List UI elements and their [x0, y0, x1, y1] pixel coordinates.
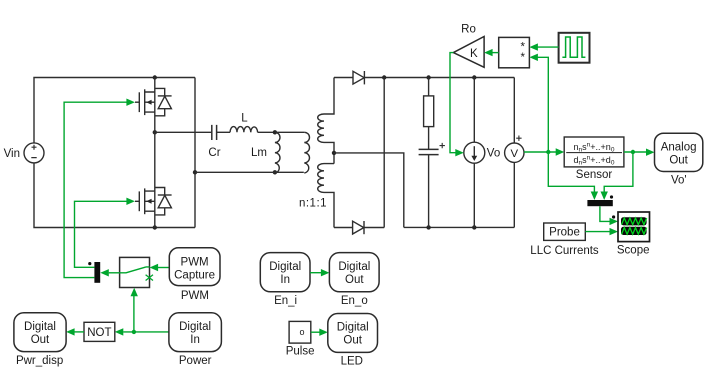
node cap bottom	[426, 225, 430, 229]
wire Sensor to Analog Out	[624, 151, 647, 153]
wire D2 cathode up to top rail	[364, 78, 384, 228]
svg-text:Digital: Digital	[24, 321, 56, 333]
svg-text:Out: Out	[345, 274, 364, 286]
wire secondary bottom to D2	[334, 227, 353, 229]
svg-text:Ro: Ro	[461, 24, 476, 36]
node resistor top	[426, 75, 430, 79]
wire V tee to mux	[548, 152, 594, 192]
svg-text:Out: Out	[343, 335, 362, 347]
wire right return leg	[194, 78, 196, 228]
svg-text:Pulse: Pulse	[286, 345, 315, 357]
svg-text:Scope: Scope	[617, 244, 650, 256]
block Probe	[544, 223, 586, 240]
svg-text:Out: Out	[669, 155, 688, 167]
svg-text:En_i: En_i	[274, 295, 297, 307]
voltmeter V	[513, 78, 515, 228]
svg-text:Vo: Vo	[487, 148, 500, 160]
svg-text:*: *	[521, 52, 526, 64]
svg-text:PWM: PWM	[181, 256, 209, 268]
demux index dot	[88, 262, 91, 265]
capacitor Cr	[212, 125, 217, 140]
svg-text:In: In	[280, 274, 290, 286]
svg-text:Out: Out	[31, 334, 50, 346]
svg-text:Capture: Capture	[174, 269, 215, 281]
wire pulse generator to product	[538, 46, 559, 48]
svg-text:Sensor: Sensor	[576, 169, 613, 181]
wire product to K	[492, 52, 499, 54]
node center tap	[332, 151, 336, 155]
wire V to Sensor	[524, 151, 556, 153]
svg-text:V: V	[510, 148, 518, 160]
wire mux to Scope	[600, 206, 610, 221]
svg-text:LLC Currents: LLC Currents	[530, 245, 599, 257]
block Digital In En_i	[260, 253, 310, 292]
block Digital Out Pwr_disp	[14, 313, 66, 352]
svg-text:PWM: PWM	[181, 290, 209, 302]
transfer function Sensor	[564, 137, 624, 167]
svg-text:Lm: Lm	[251, 147, 267, 159]
wire En_i to En_o	[310, 272, 321, 274]
wire demux to Q2 gate	[75, 201, 127, 267]
wire Probe to Scope	[585, 231, 610, 233]
block Scope	[618, 212, 650, 242]
node half-bridge midpoint	[153, 130, 157, 134]
mux index dot	[610, 195, 613, 198]
svg-text:Pwr_disp: Pwr_disp	[16, 355, 63, 367]
resistor load	[428, 78, 430, 96]
svg-text:Analog: Analog	[661, 142, 697, 154]
block Digital Out LED	[328, 314, 378, 353]
scope input index dot	[612, 215, 615, 218]
transformer primary winding	[304, 132, 309, 173]
wire secondary top to D1	[334, 77, 353, 79]
svg-text:Probe: Probe	[549, 227, 580, 239]
wire bottom rail left	[34, 163, 195, 228]
svg-text:En_o: En_o	[341, 295, 368, 307]
svg-text:Digital: Digital	[337, 322, 369, 334]
svg-text:Vo': Vo'	[671, 175, 687, 187]
wire center tap return	[334, 153, 404, 228]
wire V measurement to product	[538, 57, 549, 152]
wire K to current source Vo	[450, 53, 456, 153]
product block	[499, 37, 530, 67]
diode D1	[353, 71, 364, 84]
block Digital Out En_o	[329, 253, 379, 292]
svg-text:Digital: Digital	[269, 261, 301, 273]
wire top rail left	[34, 78, 195, 143]
wire PWM Capture to switch	[158, 267, 169, 269]
svg-text:Power: Power	[179, 355, 212, 367]
wire Sensor tee to mux	[604, 152, 633, 192]
node V measurement tee	[546, 150, 550, 154]
wire half-bridge column	[154, 78, 156, 228]
svg-text:o: o	[299, 327, 304, 337]
block Digital In Power	[169, 313, 222, 352]
node tank return	[193, 170, 197, 174]
diode D2	[353, 221, 364, 234]
mux bar	[587, 200, 612, 206]
svg-text:n:1:1: n:1:1	[299, 198, 327, 210]
block NOT	[84, 322, 115, 341]
wire Pulse to LED	[311, 331, 320, 333]
block Pulse	[289, 321, 311, 343]
current source Vo	[473, 78, 475, 228]
switch block	[120, 257, 150, 287]
node D1/D2 cathode	[382, 75, 386, 79]
demux bar	[94, 262, 100, 283]
capacitor output	[419, 149, 439, 154]
inductor L	[230, 127, 258, 133]
wire Cr to L	[217, 131, 231, 133]
transformer secondary winding top	[318, 78, 334, 164]
block PWM Capture	[169, 248, 220, 286]
node Lm top	[273, 130, 277, 134]
svg-text:NOT: NOT	[87, 327, 111, 339]
node Sensor output tee	[631, 150, 635, 154]
node Lm bottom	[273, 170, 277, 174]
svg-text:Digital: Digital	[338, 261, 370, 273]
svg-text:K: K	[470, 48, 478, 60]
svg-text:Digital: Digital	[179, 321, 211, 333]
node bottom rail / Q2 source	[153, 225, 157, 229]
node top rail / Q1 drain	[153, 75, 157, 79]
svg-text:Vin: Vin	[4, 148, 20, 160]
pulse generator block	[559, 33, 590, 63]
block Analog Out	[655, 133, 703, 171]
wire NOT to Digital Out	[75, 331, 85, 333]
wire demux to Q1 gate	[64, 102, 127, 277]
transistor Q1 (top MOSFET with diode)	[135, 88, 172, 115]
gain K (Ro)	[453, 37, 484, 68]
wire tank return	[195, 171, 304, 173]
node Vo top	[472, 75, 476, 79]
transistor Q2 (bottom MOSFET with diode)	[135, 188, 172, 215]
wire midpoint to Cr	[155, 131, 212, 133]
wire top output rail	[364, 77, 514, 79]
transformer secondary winding bottom	[318, 164, 334, 228]
svg-text:In: In	[190, 334, 200, 346]
node Vo bottom	[472, 225, 476, 229]
wire bottom output rail	[404, 226, 515, 228]
inductor Lm	[275, 132, 280, 173]
svg-text:L: L	[241, 113, 248, 125]
wire L to primary	[258, 131, 305, 133]
wire Power to NOT and switch	[123, 331, 169, 333]
svg-text:LED: LED	[341, 356, 363, 368]
wire switch to demux	[109, 272, 120, 274]
voltage source Vin	[24, 143, 44, 163]
svg-text:Cr: Cr	[208, 147, 220, 159]
